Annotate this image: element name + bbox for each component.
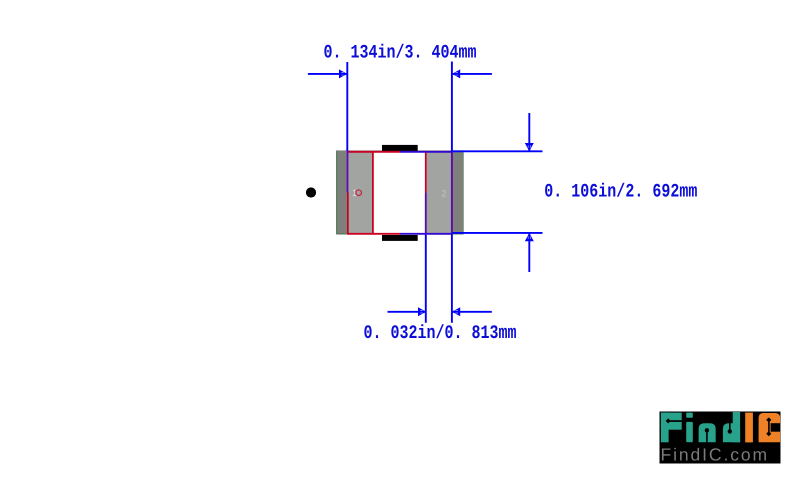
top dimension line left: [308, 73, 347, 75]
red outline right vertical upper: [425, 151, 427, 193]
svg-text:2: 2: [442, 188, 447, 198]
letter i teal: [686, 413, 693, 418]
pad 1 origin circle: [356, 190, 362, 196]
logo black background: [660, 412, 781, 464]
silkscreen bar top: [382, 145, 418, 151]
FindIC logo: [660, 412, 781, 465]
red outline left vertical lower: [347, 193, 349, 235]
right dimension arrow stem bottom: [528, 233, 530, 272]
letter n teal: [699, 423, 716, 442]
body interior white: [349, 152, 452, 233]
right dimension line top: [452, 150, 542, 152]
bottom dimension line right: [452, 311, 492, 313]
arrowhead bottom-dim right-pointing: [418, 307, 426, 316]
violet pad2 right vertical: [451, 151, 453, 235]
dimension extension line top-right: [451, 62, 453, 152]
top dimension line right: [452, 73, 492, 75]
blue-violet outline bottom segment: [400, 233, 452, 235]
red outline top segment: [348, 151, 400, 153]
right dimension line bottom: [452, 232, 542, 234]
violet right vertical lower: [425, 193, 427, 235]
arrowhead top-dim left-pointing: [452, 69, 460, 78]
arrowhead right-dim up-pointing: [525, 233, 534, 241]
right dimension arrow stem top: [528, 113, 530, 151]
dimension extension line top-left: [346, 62, 348, 151]
letter I orange: [745, 413, 753, 443]
arrowhead bottom-dim left-pointing: [452, 307, 460, 316]
dimension extension line bottom-left: [425, 235, 427, 323]
arrowhead top-dim right-pointing: [339, 69, 347, 78]
letter C orange: [759, 413, 781, 442]
dimension extension line bottom-right: [451, 234, 453, 322]
svg-text:FindIC.com: FindIC.com: [661, 444, 769, 464]
bottom dimension line left: [388, 311, 427, 313]
blue-violet outline top segment: [400, 151, 452, 153]
pin-1 marker dot: [306, 187, 316, 197]
svg-text:0. 106in/2. 692mm: 0. 106in/2. 692mm: [544, 181, 697, 203]
arrowhead right-dim down-pointing: [525, 143, 534, 151]
pad 2: [427, 152, 452, 233]
red outline mid vertical: [372, 151, 374, 235]
svg-text:0. 032in/0. 813mm: 0. 032in/0. 813mm: [364, 323, 517, 345]
letter F teal: [661, 413, 682, 430]
pad 1: [349, 152, 373, 233]
letter d teal: [723, 423, 740, 442]
component body outline: [336, 150, 463, 234]
violet left vertical upper: [347, 151, 349, 193]
red outline bottom segment: [348, 233, 400, 235]
silkscreen bar bottom: [382, 235, 418, 241]
svg-text:0. 134in/3. 404mm: 0. 134in/3. 404mm: [324, 42, 477, 64]
